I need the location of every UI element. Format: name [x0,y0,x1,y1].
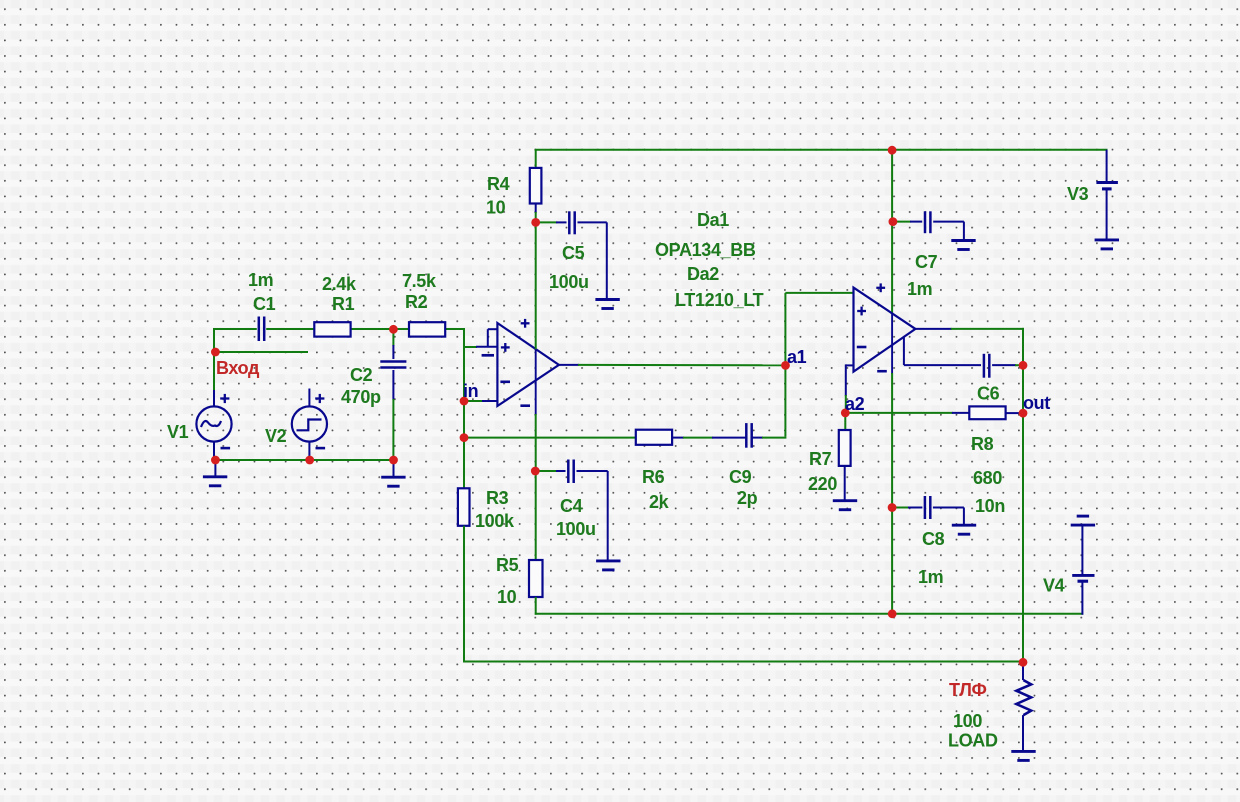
svg-text:LT1210_LT: LT1210_LT [675,290,764,310]
svg-text:470p: 470p [341,387,381,407]
svg-text:V3: V3 [1067,184,1089,204]
svg-text:100u: 100u [549,272,589,292]
svg-text:1m: 1m [907,279,932,299]
svg-text:R4: R4 [487,174,510,194]
svg-text:out: out [1023,393,1050,413]
svg-text:C2: C2 [350,365,373,385]
svg-text:C6: C6 [977,384,1000,404]
svg-text:2k: 2k [649,492,670,512]
svg-text:1m: 1m [918,567,943,587]
svg-text:R6: R6 [642,467,665,487]
svg-text:V1: V1 [167,422,189,442]
svg-text:100: 100 [953,711,982,731]
svg-text:C9: C9 [729,467,752,487]
svg-text:10n: 10n [975,496,1005,516]
svg-text:10: 10 [497,587,517,607]
svg-text:10: 10 [486,198,506,218]
svg-text:7.5k: 7.5k [402,271,437,291]
svg-text:C5: C5 [562,243,585,263]
svg-text:1m: 1m [248,270,273,290]
svg-text:C7: C7 [915,252,938,272]
svg-text:2p: 2p [737,488,758,508]
svg-text:Da2: Da2 [687,264,719,284]
svg-text:R5: R5 [496,555,519,575]
svg-text:in: in [463,381,478,401]
svg-text:a2: a2 [845,394,865,414]
svg-text:ТЛФ: ТЛФ [949,680,987,700]
svg-text:220: 220 [808,474,837,494]
svg-text:R1: R1 [332,294,355,314]
svg-text:R8: R8 [971,434,994,454]
svg-text:LOAD: LOAD [948,731,998,751]
svg-text:R2: R2 [405,292,428,312]
svg-text:C4: C4 [560,496,583,516]
svg-text:OPA134_BB: OPA134_BB [655,240,756,260]
svg-text:680: 680 [973,468,1002,488]
svg-text:C1: C1 [253,294,276,314]
svg-text:2.4k: 2.4k [322,274,357,294]
svg-text:R3: R3 [486,488,509,508]
svg-text:V4: V4 [1043,576,1065,596]
svg-text:a1: a1 [787,347,807,367]
svg-text:100k: 100k [475,511,515,531]
svg-text:V2: V2 [265,426,287,446]
svg-text:100u: 100u [556,519,596,539]
svg-text:Da1: Da1 [697,210,729,230]
svg-text:Вход: Вход [216,358,260,378]
svg-text:R7: R7 [809,449,832,469]
svg-text:C8: C8 [922,529,945,549]
